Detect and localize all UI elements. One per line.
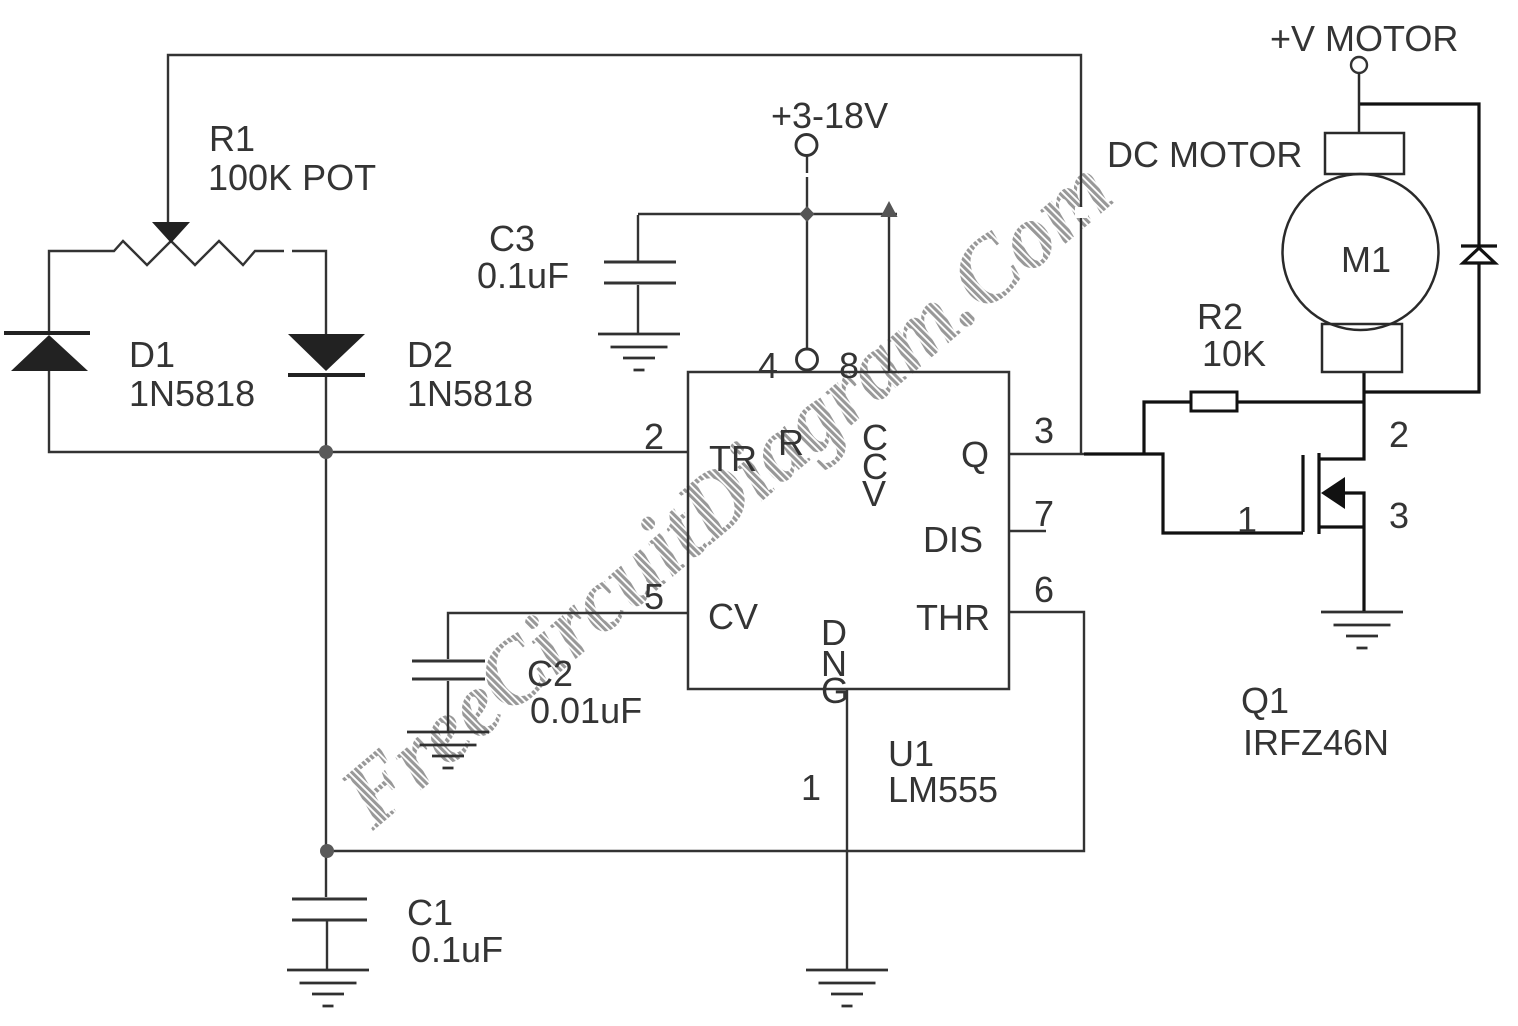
svg-text:1: 1: [801, 767, 821, 808]
svg-text:7: 7: [1034, 493, 1054, 534]
svg-text:1: 1: [1237, 499, 1257, 540]
svg-text:D2: D2: [407, 334, 453, 375]
svg-text:+3-18V: +3-18V: [771, 95, 888, 136]
svg-text:0.1uF: 0.1uF: [411, 929, 503, 970]
svg-text:0.1uF: 0.1uF: [477, 255, 569, 296]
svg-text:M1: M1: [1341, 239, 1391, 280]
svg-text:R: R: [778, 422, 804, 463]
svg-text:U1: U1: [888, 733, 934, 774]
svg-text:CV: CV: [708, 596, 758, 637]
svg-text:5: 5: [644, 576, 664, 617]
svg-text:C2: C2: [527, 653, 573, 694]
svg-text:C1: C1: [407, 892, 453, 933]
svg-text:Q1: Q1: [1241, 680, 1289, 721]
svg-text:R2: R2: [1197, 296, 1243, 337]
svg-text:10K: 10K: [1202, 333, 1266, 374]
svg-text:0.01uF: 0.01uF: [530, 690, 642, 731]
svg-text:3: 3: [1389, 495, 1409, 536]
svg-text:DC MOTOR: DC MOTOR: [1107, 134, 1302, 175]
svg-text:R1: R1: [209, 118, 255, 159]
svg-text:3: 3: [1034, 410, 1054, 451]
svg-text:G: G: [821, 670, 849, 711]
svg-text:4: 4: [758, 345, 778, 386]
svg-text:TR: TR: [709, 438, 757, 479]
svg-text:Q: Q: [961, 434, 989, 475]
svg-text:+V MOTOR: +V MOTOR: [1270, 18, 1458, 59]
svg-text:THR: THR: [916, 597, 990, 638]
svg-text:6: 6: [1034, 569, 1054, 610]
svg-text:1N5818: 1N5818: [129, 373, 255, 414]
svg-text:2: 2: [644, 416, 664, 457]
svg-text:2: 2: [1389, 414, 1409, 455]
svg-text:D1: D1: [129, 334, 175, 375]
svg-text:LM555: LM555: [888, 769, 998, 810]
svg-text:DIS: DIS: [923, 519, 983, 560]
svg-text:1N5818: 1N5818: [407, 373, 533, 414]
svg-text:C3: C3: [489, 218, 535, 259]
svg-text:V: V: [862, 473, 886, 514]
svg-text:100K POT: 100K POT: [208, 157, 376, 198]
svg-text:8: 8: [839, 345, 859, 386]
svg-text:IRFZ46N: IRFZ46N: [1243, 722, 1389, 763]
